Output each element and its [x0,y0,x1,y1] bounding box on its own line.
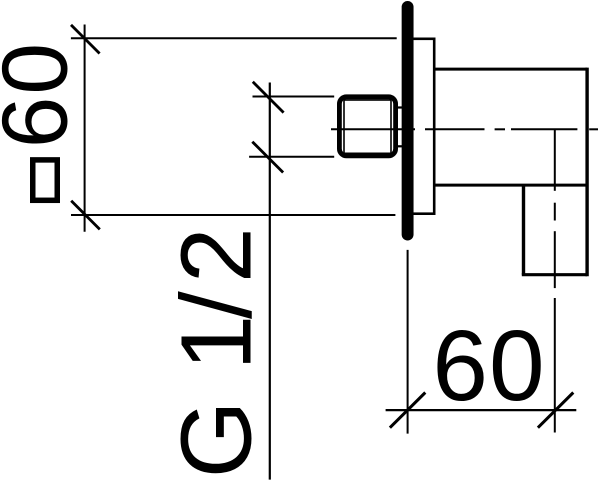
dimension 60 bottom: left extension line [407,250,409,434]
svg-text:1: 1 [160,315,272,371]
dimension square-60: top extension line [71,37,397,39]
neck bottom line [396,145,403,147]
dimension square-60: top tick [71,25,100,54]
wall plate (thick vertical bar, edge view) [402,7,414,235]
svg-text:/: / [160,291,272,319]
dimension 60 bottom: right tick [538,393,573,428]
neck top line [396,106,403,108]
horizontal centerline (dash-dot) [331,128,598,130]
svg-text:G: G [160,401,272,479]
dimension G 1/2: top extension line [253,96,335,98]
threaded nipple outer outline [339,97,395,156]
dimension 60 bottom: dimension line [386,409,577,411]
dimension square-60: square symbol [33,160,58,200]
outlet bottom edge [522,273,587,276]
outlet vertical centerline (dash-dot) [554,129,556,288]
dimension square-60: bottom extension line [71,214,395,216]
dimension G 1/2: bottom tick [252,142,283,173]
svg-text:60: 60 [432,310,545,422]
body right edge [585,68,588,277]
rosette square flange (side view rectangle) [407,39,434,214]
svg-text:60: 60 [0,41,86,148]
body top edge [434,68,587,71]
dimension G 1/2: bottom extension line [249,156,334,158]
svg-text:2: 2 [160,227,272,283]
dimension G 1/2: leader line [269,83,271,480]
dimension square-60: bottom tick [71,201,100,230]
threaded nipple inner thread line [344,100,391,153]
body bottom edge [434,184,587,187]
dimension 60 bottom: right extension line [554,298,556,433]
dimension square-60: dimension line [84,25,86,232]
dimension 60 bottom: left tick [390,393,425,428]
dimension G 1/2: label (rotated) [160,227,272,478]
outlet left edge [522,185,525,275]
dimension G 1/2: top tick [253,82,284,113]
